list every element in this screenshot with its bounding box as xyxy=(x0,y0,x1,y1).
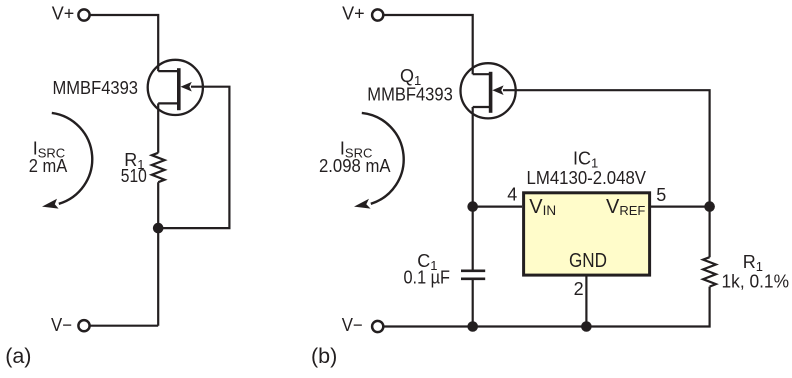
wire V+ to drain (b) xyxy=(384,15,473,74)
current arc ISRC (b) xyxy=(354,113,404,209)
wire resistor to rail (b) xyxy=(384,287,710,327)
svg-text:(b): (b) xyxy=(311,344,337,368)
node VIN junction (b) xyxy=(467,201,478,212)
node junction (a) xyxy=(153,223,164,234)
wire resistor to node (a) xyxy=(157,182,159,326)
svg-text:MMBF4393: MMBF4393 xyxy=(53,78,139,98)
IC1 box LM4130 (b) xyxy=(524,193,650,275)
wire gate feedback (a) xyxy=(158,87,229,228)
wire source to resistor (a) xyxy=(157,103,159,152)
transistor Q MMBF4393 (a) xyxy=(148,60,203,115)
wire capacitor to rail (b) xyxy=(472,280,474,327)
current arc ISRC (a) xyxy=(42,113,92,209)
wire gate feedback (b) xyxy=(503,90,710,257)
wire pin4 (b) xyxy=(473,206,522,208)
svg-text:V+: V+ xyxy=(342,4,365,24)
resistor R1 (b) xyxy=(703,257,716,286)
node rail junction C1 (b) xyxy=(467,321,478,332)
svg-text:0.1 µF: 0.1 µF xyxy=(404,268,451,288)
terminal V- (b) xyxy=(372,321,383,332)
svg-text:1k, 0.1%: 1k, 0.1% xyxy=(722,271,790,291)
wire pin5 (b) xyxy=(650,206,710,208)
wire V+ to drain (a) xyxy=(90,15,158,71)
wire source to bottom (b) xyxy=(472,107,474,270)
pin2 wire GND (b) xyxy=(585,275,587,326)
svg-text:2 mA: 2 mA xyxy=(29,156,68,176)
svg-text:5: 5 xyxy=(656,185,666,205)
svg-text:2.098 mA: 2.098 mA xyxy=(319,156,391,176)
svg-text:4: 4 xyxy=(507,184,517,204)
node rail junction GND (b) xyxy=(581,321,592,332)
svg-text:LM4130-2.048V: LM4130-2.048V xyxy=(527,168,647,188)
svg-text:V−: V− xyxy=(51,315,72,335)
terminal V+ (b) xyxy=(372,9,383,20)
transistor Q1 MMBF4393 (b) xyxy=(461,63,516,118)
svg-text:(a): (a) xyxy=(5,344,31,368)
svg-text:V+: V+ xyxy=(52,4,75,24)
svg-text:V−: V− xyxy=(342,315,363,335)
svg-text:510: 510 xyxy=(121,166,147,186)
node VREF junction (b) xyxy=(704,201,715,212)
terminal V- (a) xyxy=(78,320,89,331)
svg-text:MMBF4393: MMBF4393 xyxy=(367,85,453,105)
terminal V+ (a) xyxy=(78,9,89,20)
svg-text:2: 2 xyxy=(574,279,584,299)
capacitor C1 (b) xyxy=(461,271,485,279)
wire V- (a) xyxy=(90,325,158,327)
resistor R1 (a) xyxy=(152,153,165,182)
svg-text:GND: GND xyxy=(569,250,607,272)
